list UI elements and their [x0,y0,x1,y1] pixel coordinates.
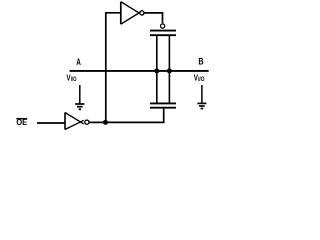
svg-text:B: B [198,57,204,67]
svg-text:I/O: I/O [198,76,204,83]
svg-text:OE: OE [16,118,28,127]
svg-text:A: A [76,57,81,67]
svg-text:I/O: I/O [71,76,77,83]
